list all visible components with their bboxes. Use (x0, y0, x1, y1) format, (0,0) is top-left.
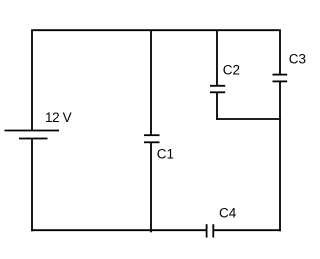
wire: bottom bus right of C4 (213, 229, 280, 231)
svg-text:C2: C2 (223, 63, 240, 78)
wire: right branch lower segment (279, 81, 281, 231)
wire: left branch upper segment (31, 30, 33, 130)
svg-text:C1: C1 (157, 147, 174, 162)
wire: middle branch lower segment (150, 142, 152, 232)
svg-text:12 V: 12 V (45, 110, 72, 125)
capacitor C2 (210, 86, 225, 93)
svg-text:C3: C3 (289, 52, 306, 67)
wire: sub-loop horizontal connecting C2 to C3 branch (216, 118, 281, 120)
wire: middle branch upper segment (150, 30, 152, 135)
capacitor C4 (207, 224, 214, 237)
capacitor C1 (144, 135, 160, 142)
wire: C2 branch lower segment (216, 92, 218, 120)
wire: top bus (31, 29, 281, 31)
battery V1 (12 V) (5, 131, 60, 139)
wire: bottom bus left of C4 (31, 229, 206, 231)
svg-text:C4: C4 (219, 206, 237, 221)
capacitor C3 (273, 75, 288, 82)
wire: left branch lower segment (31, 139, 33, 232)
wire: C2 branch upper segment (216, 30, 218, 86)
wire: right branch upper segment (279, 30, 281, 74)
